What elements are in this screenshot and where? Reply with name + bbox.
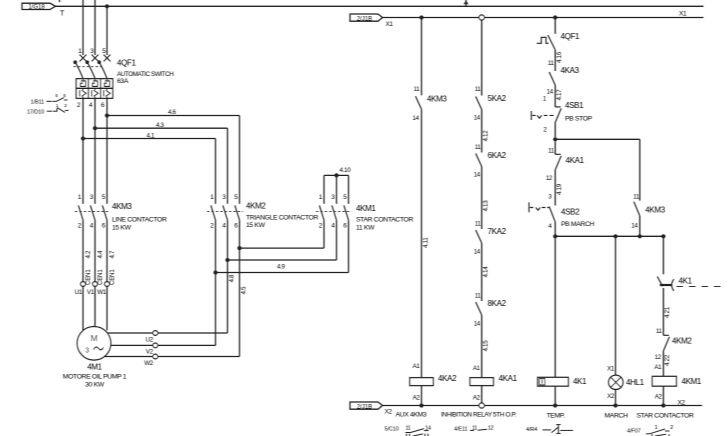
svg-text:W2: W2 xyxy=(144,360,153,367)
svg-text:2: 2 xyxy=(670,425,673,431)
svg-text:LINE CONTACTOR: LINE CONTACTOR xyxy=(112,217,167,224)
svg-text:12: 12 xyxy=(655,354,662,361)
svg-text:4.10: 4.10 xyxy=(340,167,352,174)
svg-text:4SB1: 4SB1 xyxy=(565,101,584,110)
svg-text:3: 3 xyxy=(85,348,89,355)
svg-text:8KA2: 8KA2 xyxy=(488,299,507,308)
svg-text:14: 14 xyxy=(631,223,638,230)
svg-text:4.19: 4.19 xyxy=(556,183,563,195)
svg-text:14: 14 xyxy=(474,115,481,122)
svg-text:63A: 63A xyxy=(117,78,129,85)
svg-text:14: 14 xyxy=(413,115,420,122)
svg-text:A2: A2 xyxy=(413,395,421,402)
svg-text:INHIBITION RELAY 5TH O.P.: INHIBITION RELAY 5TH O.P. xyxy=(441,412,517,419)
svg-text:4.21: 4.21 xyxy=(664,306,671,318)
svg-text:TRIANGLE CONTACTOR: TRIANGLE CONTACTOR xyxy=(246,214,318,221)
svg-text:A1: A1 xyxy=(413,363,421,370)
svg-text:4.22: 4.22 xyxy=(664,354,671,366)
svg-text:11: 11 xyxy=(656,328,663,335)
svg-text:15 KW: 15 KW xyxy=(246,222,266,229)
svg-text:X2: X2 xyxy=(607,393,615,400)
svg-text:4K1: 4K1 xyxy=(573,377,587,386)
svg-text:15 KW: 15 KW xyxy=(112,225,132,232)
svg-text:14: 14 xyxy=(474,249,481,256)
svg-text:14: 14 xyxy=(474,172,481,179)
svg-text:4.4: 4.4 xyxy=(97,250,104,259)
svg-text:1/G18: 1/G18 xyxy=(28,5,45,11)
svg-text:4/F07: 4/F07 xyxy=(627,428,641,434)
svg-text:4.2: 4.2 xyxy=(85,250,92,259)
svg-text:4KM1: 4KM1 xyxy=(356,204,376,213)
svg-text:4QF1: 4QF1 xyxy=(561,32,581,41)
svg-text:4.5: 4.5 xyxy=(240,286,247,295)
svg-text:4KM3: 4KM3 xyxy=(645,206,665,215)
svg-text:U2: U2 xyxy=(146,337,154,344)
svg-text:4.6: 4.6 xyxy=(168,109,177,116)
svg-text:11: 11 xyxy=(548,60,555,67)
svg-text:11: 11 xyxy=(475,220,482,227)
svg-text:4M1: 4M1 xyxy=(87,363,102,372)
svg-text:A2: A2 xyxy=(655,394,663,401)
svg-text:4.9: 4.9 xyxy=(277,264,286,271)
svg-text:4.3: 4.3 xyxy=(156,122,165,129)
svg-text:4.17: 4.17 xyxy=(556,89,563,101)
svg-text:PB MARCH: PB MARCH xyxy=(561,221,595,228)
svg-text:5KA2: 5KA2 xyxy=(488,94,507,103)
svg-text:6KA2: 6KA2 xyxy=(488,151,507,160)
svg-text:4.8: 4.8 xyxy=(228,274,235,283)
svg-text:PB STOP: PB STOP xyxy=(565,116,593,123)
svg-text:STAR CONTACTOR: STAR CONTACTOR xyxy=(637,413,694,420)
svg-text:11: 11 xyxy=(548,147,555,154)
svg-text:4.13: 4.13 xyxy=(482,200,489,212)
svg-text:4.15: 4.15 xyxy=(482,340,489,352)
svg-text:4.1: 4.1 xyxy=(147,132,156,139)
svg-text:11: 11 xyxy=(475,144,482,151)
svg-text:4SB2: 4SB2 xyxy=(561,208,580,217)
svg-text:X2: X2 xyxy=(678,399,686,406)
svg-text:4.16: 4.16 xyxy=(556,51,563,63)
svg-text:A1: A1 xyxy=(473,365,481,372)
svg-text:12: 12 xyxy=(488,425,494,431)
svg-text:4KA1: 4KA1 xyxy=(499,374,518,383)
svg-text:4KA3: 4KA3 xyxy=(561,66,580,75)
svg-text:X1: X1 xyxy=(607,366,615,373)
svg-text:11: 11 xyxy=(633,193,640,200)
svg-text:4/E11: 4/E11 xyxy=(454,427,468,433)
svg-text:14: 14 xyxy=(474,321,481,328)
svg-text:2/J1B: 2/J1B xyxy=(357,16,372,22)
svg-text:12: 12 xyxy=(546,175,553,182)
svg-text:1/B11: 1/B11 xyxy=(31,99,45,105)
svg-text:4KM3: 4KM3 xyxy=(427,95,447,104)
svg-text:4KA2: 4KA2 xyxy=(438,374,457,383)
svg-text:4KM3: 4KM3 xyxy=(112,202,132,211)
svg-text:X2: X2 xyxy=(385,409,393,416)
svg-text:V2: V2 xyxy=(146,349,154,356)
svg-text:2/J1B: 2/J1B xyxy=(357,404,372,410)
svg-text:CEN1: CEN1 xyxy=(85,269,92,285)
svg-text:7KA2: 7KA2 xyxy=(488,227,507,236)
svg-text:4K1: 4K1 xyxy=(679,276,693,285)
svg-text:4KM1: 4KM1 xyxy=(682,377,702,386)
svg-text:4.14: 4.14 xyxy=(482,266,489,278)
svg-text:X1: X1 xyxy=(386,21,394,28)
svg-text:W1: W1 xyxy=(97,289,106,296)
svg-text:AUX 4KM3: AUX 4KM3 xyxy=(396,412,427,419)
svg-text:4QF1: 4QF1 xyxy=(117,59,137,68)
svg-text:M: M xyxy=(91,333,98,343)
svg-text:5/C10: 5/C10 xyxy=(385,427,399,433)
svg-text:CEN1: CEN1 xyxy=(97,269,104,285)
svg-text:V1: V1 xyxy=(87,289,95,296)
svg-text:A1: A1 xyxy=(654,364,662,371)
svg-text:11: 11 xyxy=(475,292,482,299)
svg-text:30 KW: 30 KW xyxy=(85,382,105,389)
svg-text:X1: X1 xyxy=(679,11,687,18)
svg-text:11: 11 xyxy=(475,86,482,93)
svg-text:11 KW: 11 KW xyxy=(356,225,375,232)
svg-text:AUTOMATIC SWITCH: AUTOMATIC SWITCH xyxy=(117,71,174,78)
svg-text:4/R4: 4/R4 xyxy=(526,427,537,433)
svg-text:1: 1 xyxy=(655,425,658,431)
svg-text:4KA1: 4KA1 xyxy=(566,156,585,165)
svg-text:TEMP.: TEMP. xyxy=(547,413,566,420)
svg-text:MOTORE OIL PUMP 1: MOTORE OIL PUMP 1 xyxy=(63,374,127,381)
svg-text:4KM2: 4KM2 xyxy=(672,337,692,346)
svg-text:4HL1: 4HL1 xyxy=(626,378,645,387)
svg-text:11: 11 xyxy=(405,425,410,431)
svg-text:U1: U1 xyxy=(75,289,83,296)
svg-text:11: 11 xyxy=(414,86,421,93)
svg-text:17/D10: 17/D10 xyxy=(27,109,44,115)
svg-text:14: 14 xyxy=(547,88,554,95)
svg-text:4.7: 4.7 xyxy=(109,250,116,259)
svg-text:A2: A2 xyxy=(473,395,481,402)
svg-text:CEN1: CEN1 xyxy=(109,269,116,285)
svg-text:4KM2: 4KM2 xyxy=(246,202,266,211)
svg-text:4.11: 4.11 xyxy=(423,237,430,248)
svg-text:MARCH: MARCH xyxy=(605,413,629,420)
svg-text:STAR CONTACTOR: STAR CONTACTOR xyxy=(356,217,413,224)
svg-text:4.12: 4.12 xyxy=(482,130,489,142)
